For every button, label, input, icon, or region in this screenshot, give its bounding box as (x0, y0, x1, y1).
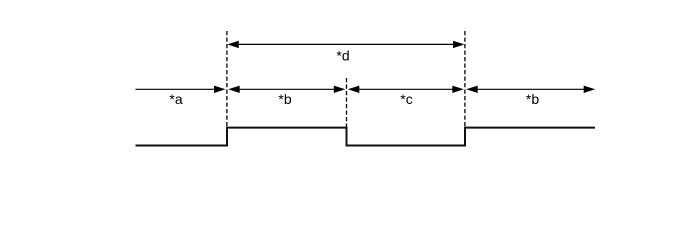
svg-text:*d: *d (336, 47, 349, 63)
svg-text:*b: *b (278, 91, 291, 107)
svg-text:*b: *b (526, 91, 539, 107)
svg-text:*c: *c (400, 91, 412, 107)
svg-text:*a: *a (169, 91, 182, 107)
